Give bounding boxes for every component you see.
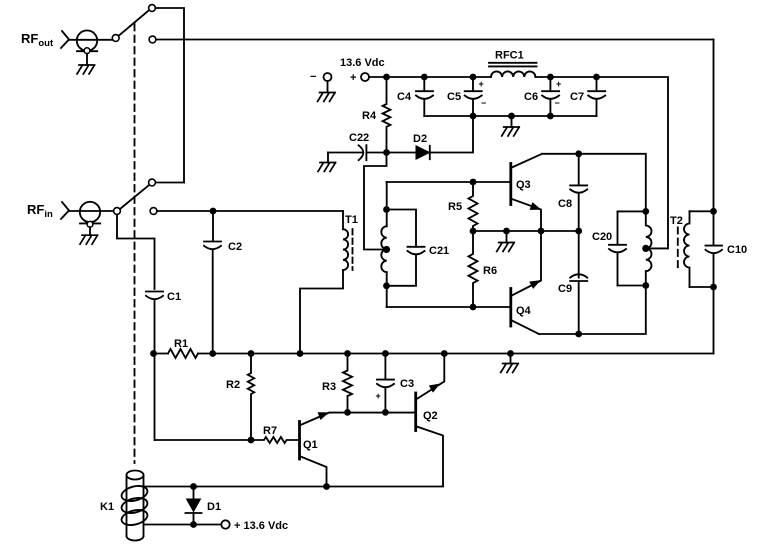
node Q1 collector — [323, 483, 330, 490]
relay mechanical link (dashed) — [134, 24, 136, 463]
wire J2 ground stem — [89, 227, 91, 235]
capacitor C6 — [542, 80, 559, 116]
node rail R3 — [344, 350, 351, 357]
wire C1 bottom — [154, 300, 156, 441]
wire tank top bar — [618, 210, 646, 212]
node bottom rail C9 — [575, 331, 582, 338]
inductor RFC1 core bars — [489, 63, 537, 67]
diode D1 — [193, 487, 195, 500]
svg-text:+ 13.6 Vdc: + 13.6 Vdc — [234, 520, 288, 532]
node C2 top — [210, 208, 217, 215]
svg-text:+: + — [350, 72, 356, 84]
svg-text:R4: R4 — [362, 110, 377, 122]
wire emitter mid rail — [473, 230, 579, 232]
svg-text:Q2: Q2 — [423, 410, 438, 422]
transistor Q4 emitter — [512, 231, 541, 296]
terminal minus — [324, 73, 332, 81]
connector J1 shell contact — [84, 48, 90, 54]
svg-text:K1: K1 — [100, 501, 114, 513]
connector J2 shell contact — [87, 221, 93, 227]
inductor T2 primary coil — [646, 211, 652, 285]
svg-text:C2: C2 — [228, 241, 242, 253]
capacitor C9 — [570, 231, 587, 334]
transistor Q2 emitter — [417, 354, 445, 400]
node B+ C5 — [470, 74, 477, 81]
resistor R3 — [343, 354, 352, 413]
relay K1 winding loop 2 — [120, 496, 149, 516]
svg-text:C6: C6 — [524, 91, 538, 103]
transistor Q3 emitter arrow — [530, 203, 540, 209]
svg-text:C20: C20 — [592, 231, 612, 243]
wire T2 secondary top stub — [690, 210, 714, 212]
wire top link — [156, 8, 184, 183]
svg-text:R6: R6 — [483, 265, 497, 277]
relay K1 winding loop 1 — [120, 484, 149, 504]
transistor Q2 emitter arrow — [430, 384, 439, 392]
node bottom rail C5/D2 — [470, 113, 477, 120]
diode D2 cathode bar — [429, 146, 431, 159]
svg-text:RFout: RFout — [21, 31, 54, 49]
connector J1 RF out body — [77, 30, 97, 50]
transistor Q4 collector — [512, 321, 539, 335]
svg-text:C3: C3 — [400, 378, 414, 390]
wire tank bottom bar — [618, 285, 646, 287]
resistor R5 — [469, 182, 478, 231]
wire output top rail — [542, 154, 646, 212]
node tank tap — [642, 245, 649, 252]
connector J2 RF in chevron — [61, 202, 69, 219]
relay K1 winding loop 3 — [120, 508, 149, 528]
capacitor C3 — [377, 354, 394, 413]
transistor Q3 base bar — [509, 164, 512, 205]
node T2 out top — [710, 208, 717, 215]
node rail R2 — [248, 350, 255, 357]
svg-text:R2: R2 — [226, 379, 240, 391]
ground at J1 — [77, 65, 95, 74]
wire Q4 base rail — [387, 306, 510, 308]
wire D1 bottom — [193, 513, 195, 525]
node rail C2 — [209, 350, 216, 357]
terminal plus — [361, 73, 369, 81]
wire minus stem — [327, 81, 329, 92]
capacitor C8 — [570, 156, 587, 231]
switch K1b throw contact lower — [150, 208, 157, 215]
wire J1 ground stem — [86, 54, 88, 65]
transformer T1 primary coil — [343, 229, 348, 270]
svg-text:C1: C1 — [167, 291, 181, 303]
svg-text:C9: C9 — [558, 283, 572, 295]
relay K1 cylinder bottom — [127, 536, 144, 541]
switch K1b pole contact — [114, 208, 121, 215]
capacitor C7 — [588, 80, 605, 116]
transformer T1 secondary lead top — [386, 182, 388, 226]
node D1 anode — [190, 483, 197, 490]
transformer T1 secondary coil — [381, 226, 386, 272]
node rail Q2 emitter — [441, 350, 448, 357]
svg-text:C10: C10 — [727, 244, 747, 256]
svg-text:+: + — [479, 79, 484, 89]
node T1 C21 top — [383, 206, 390, 213]
node T2 out bottom — [710, 284, 717, 291]
node Q1 emitter line R3 — [344, 409, 351, 416]
wire RF input line — [157, 210, 343, 212]
inductor RFC1 coil — [491, 71, 535, 77]
svg-text:RFin: RFin — [27, 202, 53, 220]
capacitor C2 — [204, 242, 221, 250]
diode D2 — [416, 146, 430, 159]
svg-text:Q4: Q4 — [516, 305, 532, 317]
node rail C1 — [150, 350, 157, 357]
svg-text:−: − — [310, 71, 316, 83]
node bottom rail C6 — [547, 113, 554, 120]
capacitor C4 — [416, 80, 433, 116]
wire J2 center conductor — [69, 210, 113, 212]
transistor Q1 emitter — [301, 413, 416, 425]
capacitor C1 — [146, 292, 163, 300]
transformer T1 secondary lead bottom — [386, 272, 388, 307]
svg-text:T2: T2 — [670, 215, 683, 227]
connector J1 RF out chevron — [61, 31, 69, 48]
node B+ C4 — [421, 74, 428, 81]
svg-text:C21: C21 — [429, 245, 449, 257]
transistor Q4 base bar — [509, 289, 512, 327]
resistor R7 — [155, 437, 299, 443]
wire right vertical — [713, 40, 715, 354]
switch K1a pole contact — [112, 35, 119, 42]
ground at mid rail — [497, 243, 515, 252]
svg-text:T1: T1 — [345, 214, 358, 226]
wire C22 to node — [366, 152, 416, 154]
wire Q3 base rail — [387, 181, 510, 183]
svg-text:+: + — [556, 79, 561, 89]
node tank top — [642, 208, 649, 215]
capacitor C10 — [706, 246, 723, 254]
transformer T1 primary return — [300, 270, 343, 354]
svg-text:Q3: Q3 — [516, 179, 531, 191]
wire D2 to filter rail — [430, 119, 473, 153]
resistor R6 — [469, 231, 478, 307]
svg-text:R3: R3 — [322, 381, 336, 393]
transistor Q2 collector — [417, 427, 443, 486]
wire T2 secondary bottom stub — [690, 286, 714, 288]
node R6 bottom — [470, 304, 477, 311]
svg-text:R7: R7 — [263, 425, 277, 437]
wire C22 ground stub — [327, 153, 329, 163]
svg-text:+: + — [376, 391, 381, 401]
switch K1a throw contact lower — [149, 36, 156, 43]
wire main lower rail — [154, 353, 714, 355]
node top rail C8 — [575, 150, 582, 157]
node rail T1 return — [297, 350, 304, 357]
wire B+ rail — [369, 77, 668, 248]
transformer T2 core — [677, 227, 679, 267]
node R5 top — [470, 179, 477, 186]
wire C22 left to ground — [328, 152, 363, 154]
wire C21 bracket top — [387, 210, 417, 247]
transistor Q1 collector — [301, 457, 327, 487]
node mid rail emitters — [538, 228, 545, 235]
wire relay top lead — [144, 486, 444, 488]
ground at C22 — [318, 163, 336, 172]
node B+ C6 — [547, 74, 554, 81]
wire throw upper to link — [156, 182, 184, 184]
wire C21 bracket bottom — [387, 255, 417, 286]
node D1 cathode — [190, 521, 197, 528]
relay K1 coil cylinder — [127, 471, 144, 480]
node bias R4/C22/D2 — [383, 149, 390, 156]
resistor R2 — [248, 354, 254, 441]
wire relay bottom lead — [144, 524, 222, 526]
capacitor C21 — [408, 247, 425, 255]
switch K1b blade — [120, 185, 149, 208]
capacitor C20 — [609, 211, 626, 285]
wire bias feed to T1 tap — [364, 153, 387, 250]
transformer T1 core — [352, 229, 354, 270]
transformer T1 primary lead — [342, 211, 344, 229]
svg-text:−: − — [555, 98, 560, 108]
ground at lower rail — [501, 364, 519, 373]
svg-text:C7: C7 — [570, 91, 584, 103]
diode D1 cathode bar — [186, 512, 202, 514]
svg-text:D1: D1 — [207, 501, 221, 513]
node bottom rail ground — [508, 113, 515, 120]
ground at J2 — [80, 235, 98, 244]
wire filter bottom rail — [424, 115, 596, 117]
node rail C3 — [382, 350, 389, 357]
svg-text:R5: R5 — [448, 201, 462, 213]
transistor Q3 collector — [512, 154, 542, 168]
switch K1b throw contact upper — [149, 179, 156, 186]
capacitor C22 — [359, 145, 367, 160]
wire RF output line — [156, 39, 713, 41]
wire pole drop to C1 — [117, 215, 155, 289]
node rail ground — [507, 350, 514, 357]
svg-text:Q1: Q1 — [303, 439, 318, 451]
terminal 13.6 Vdc — [221, 520, 229, 528]
svg-text:−: − — [481, 98, 486, 108]
svg-text:D2: D2 — [413, 133, 427, 145]
connector J2 shell bar — [80, 222, 100, 224]
node mid rail R5/R6 — [470, 228, 477, 235]
switch K1a blade — [119, 11, 149, 36]
node tank bottom — [642, 282, 649, 289]
svg-text:C5: C5 — [447, 91, 461, 103]
svg-text:C22: C22 — [349, 132, 369, 144]
connector J1 shell bar — [77, 50, 97, 52]
node mid rail ground — [503, 228, 510, 235]
ground at minus terminal — [318, 93, 336, 102]
node mid rail C8/C9 — [575, 228, 582, 235]
node T1 bottom — [383, 282, 390, 289]
wire ground stem filter — [511, 116, 513, 127]
connector J2 RF in body — [80, 202, 100, 222]
ground at filter rail — [502, 127, 520, 136]
wire ground stem lower rail — [510, 354, 512, 364]
wire ground stem mid rail — [506, 231, 508, 243]
transistor Q4 emitter arrow — [530, 281, 540, 288]
capacitor C5 — [465, 80, 482, 116]
wire J1 center conductor — [69, 39, 112, 41]
resistor R4 — [383, 77, 391, 153]
node Q1 emitter line C3 — [382, 409, 389, 416]
transistor Q2 base bar — [414, 393, 417, 431]
transistor Q1 emitter arrow — [318, 413, 328, 419]
svg-text:R1: R1 — [174, 338, 188, 350]
node T1 tap — [383, 246, 390, 253]
node R2 bottom — [248, 437, 255, 444]
svg-text:RFC1: RFC1 — [495, 50, 524, 62]
switch K1a throw contact upper — [149, 5, 156, 12]
svg-text:C4: C4 — [397, 91, 412, 103]
transistor Q3 emitter — [512, 199, 541, 231]
svg-text:13.6 Vdc: 13.6 Vdc — [340, 57, 385, 69]
wire C2 branch — [212, 211, 214, 354]
transistor Q1 base bar — [298, 422, 301, 460]
wire output bottom rail — [539, 286, 646, 335]
transformer T2 secondary coil — [684, 211, 690, 287]
resistor R1 — [168, 349, 198, 358]
svg-text:C8: C8 — [558, 198, 572, 210]
node B+ R4 — [383, 74, 390, 81]
node B+ C7 — [593, 74, 600, 81]
